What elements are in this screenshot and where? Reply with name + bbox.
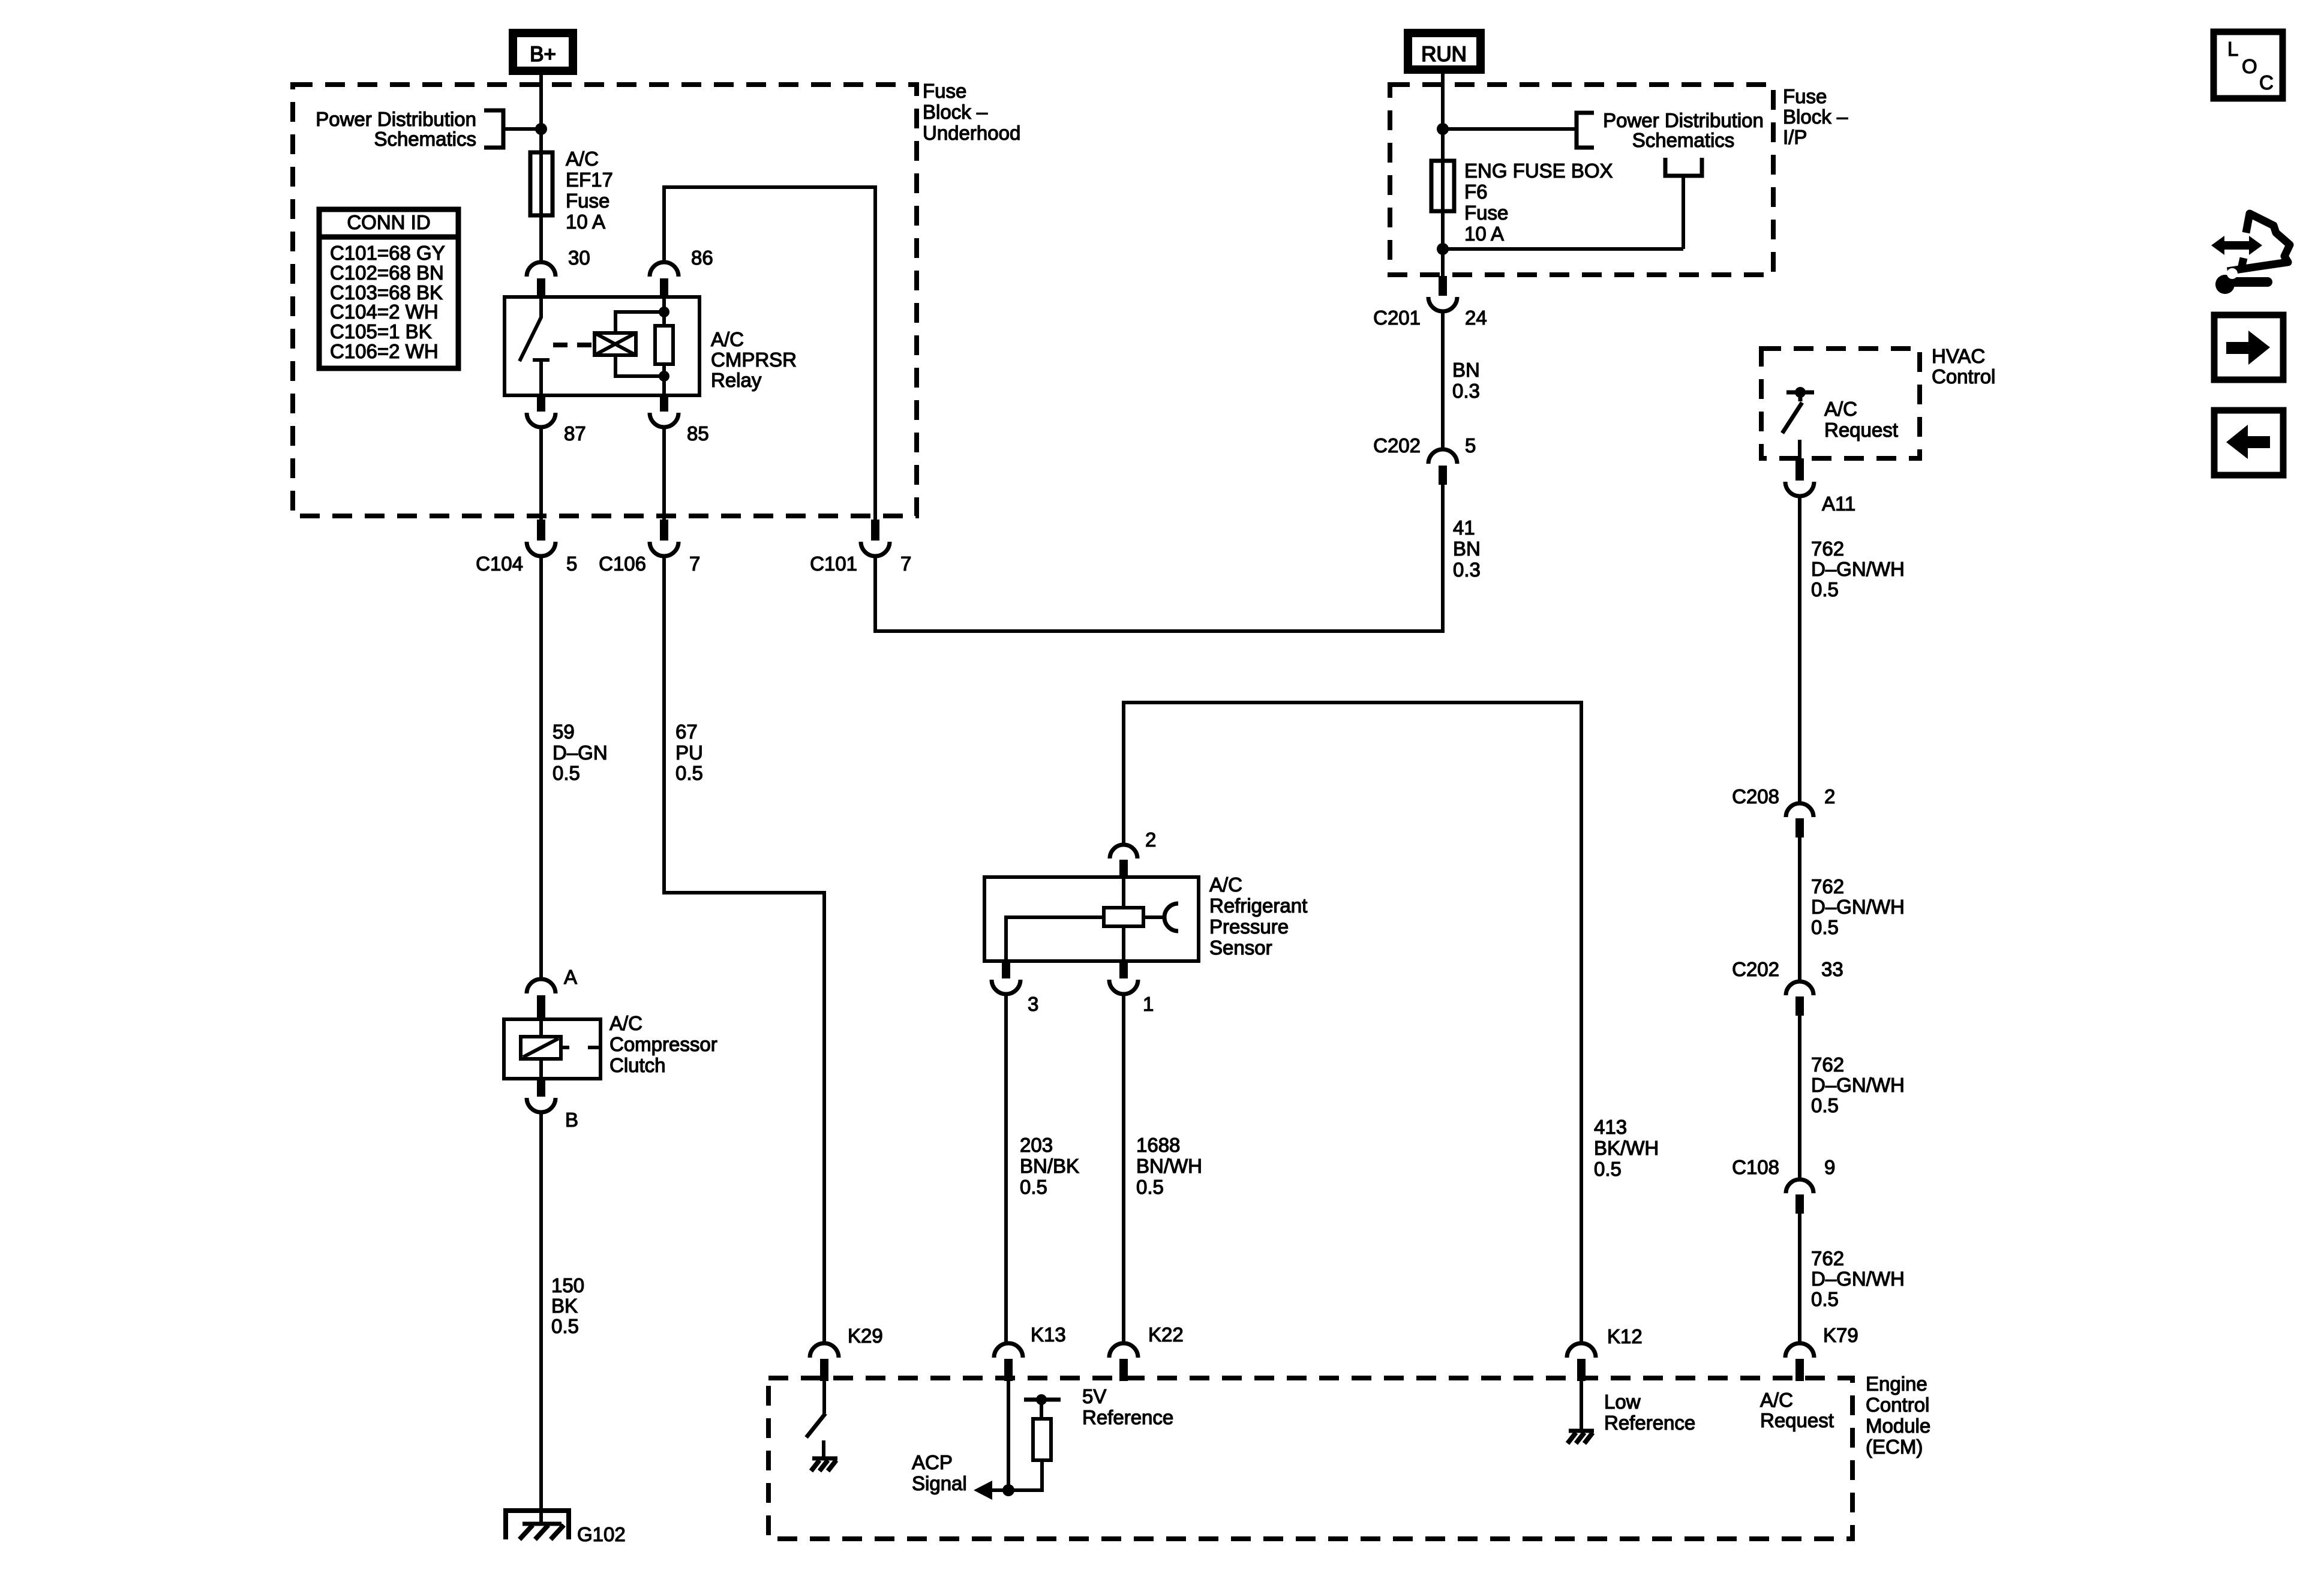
svg-text:A: A <box>564 966 577 988</box>
svg-text:203: 203 <box>1020 1134 1053 1156</box>
svg-text:Schematics: Schematics <box>1632 129 1735 151</box>
svg-text:BN: BN <box>1452 359 1480 381</box>
svg-text:7: 7 <box>689 553 700 575</box>
connector A11 <box>1785 458 1855 515</box>
svg-text:K12: K12 <box>1607 1325 1643 1347</box>
svg-text:5: 5 <box>1465 434 1476 457</box>
wire pin 3 to K13 <box>1004 994 1008 1344</box>
svg-text:Pressure: Pressure <box>1209 915 1289 938</box>
connector K29 <box>810 1325 883 1381</box>
connector B at compressor clutch <box>527 1079 578 1131</box>
svg-text:10 A: 10 A <box>566 211 605 233</box>
wire sensor pin 2 up and over to K12 <box>1124 703 1581 1344</box>
wire pin 1 to K22 <box>1122 994 1125 1344</box>
wire resistor to ACP junction <box>991 1460 1042 1490</box>
svg-text:Reference: Reference <box>1082 1406 1173 1428</box>
svg-text:C104=2 WH: C104=2 WH <box>330 301 439 323</box>
connector at relay pin 86 <box>650 262 678 298</box>
svg-text:3: 3 <box>1028 993 1038 1015</box>
svg-text:C108: C108 <box>1732 1156 1779 1178</box>
svg-text:0.5: 0.5 <box>1594 1158 1622 1180</box>
svg-text:Fuse: Fuse <box>566 190 609 212</box>
back arrow button <box>2214 410 2283 475</box>
svg-text:33: 33 <box>1821 958 1843 980</box>
forward arrow button <box>2214 315 2283 380</box>
svg-text:ACP: ACP <box>912 1451 953 1473</box>
svg-text:Fuse: Fuse <box>1464 202 1508 224</box>
label A/C Refrigerant Pressure Sensor <box>1209 873 1307 959</box>
svg-text:B: B <box>565 1109 578 1131</box>
label ACP Signal <box>912 1451 967 1494</box>
label A/C CMPRSR Relay <box>711 328 797 391</box>
svg-text:5V: 5V <box>1082 1385 1106 1407</box>
svg-text:D–GN/WH: D–GN/WH <box>1811 558 1905 580</box>
wire label 59 D-GN 0.5 <box>553 721 608 784</box>
wire label 203 BN/BK 0.5 <box>1020 1134 1079 1198</box>
svg-text:0.5: 0.5 <box>1811 916 1839 938</box>
svg-text:I/P: I/P <box>1783 126 1807 148</box>
wire C101 down to RUN feed junction <box>875 483 1443 631</box>
wire K13 to ACP signal junction <box>1007 1381 1010 1490</box>
svg-text:Schematics: Schematics <box>374 128 476 150</box>
svg-text:BN/BK: BN/BK <box>1020 1155 1079 1177</box>
connector pin 1 at pressure sensor <box>1109 961 1154 1015</box>
label HVAC Control <box>1932 345 1995 388</box>
svg-text:Compressor: Compressor <box>609 1033 717 1055</box>
svg-text:BN: BN <box>1453 538 1481 560</box>
svg-text:D–GN/WH: D–GN/WH <box>1811 1268 1905 1290</box>
connector pin 2 at pressure sensor <box>1110 828 1156 878</box>
svg-text:Module: Module <box>1866 1415 1930 1437</box>
connector C201 pin 24 <box>1373 276 1487 329</box>
wire label 41 BN 0.3 <box>1453 517 1481 581</box>
sensor element and internal wiring <box>1006 877 1178 961</box>
diagnostic wrench icon <box>2211 214 2290 294</box>
svg-text:CMPRSR: CMPRSR <box>711 349 797 371</box>
svg-text:C106=2 WH: C106=2 WH <box>330 340 439 362</box>
svg-text:K22: K22 <box>1148 1323 1184 1346</box>
wire fuse to relay pin 30 <box>539 215 543 263</box>
wire tap to power distribution bracket <box>484 110 541 148</box>
wire B to ground G102 <box>539 1111 543 1512</box>
svg-text:0.5: 0.5 <box>1136 1176 1164 1198</box>
node junction at I/P power distribution tap <box>1437 123 1449 135</box>
svg-text:0.5: 0.5 <box>1811 578 1839 601</box>
5V reference rail <box>1024 1394 1061 1419</box>
svg-text:Sensor: Sensor <box>1209 936 1272 959</box>
svg-text:1688: 1688 <box>1136 1134 1180 1156</box>
svg-text:2: 2 <box>1145 828 1156 851</box>
fuse block I/P dashed box <box>1390 85 1773 275</box>
connector K12 <box>1567 1325 1643 1381</box>
wire coil to resistor bottom loop <box>615 355 664 376</box>
ECM dashed box <box>768 1378 1852 1539</box>
svg-text:K79: K79 <box>1823 1324 1858 1346</box>
wire C202-33 to C108 <box>1798 1016 1801 1181</box>
goes-to bracket below schematics label <box>1665 158 1702 249</box>
connector C208 pin 2 <box>1732 785 1835 837</box>
connector C106 pin 7 <box>599 520 700 575</box>
label A/C EF17 Fuse 10 A <box>566 148 613 233</box>
svg-text:Clutch: Clutch <box>609 1054 666 1076</box>
switch to ground inside ECM at K29 <box>806 1381 825 1458</box>
svg-text:87: 87 <box>564 422 586 445</box>
label ENG FUSE BOX F6 Fuse 10 A <box>1464 160 1613 245</box>
ground G102 <box>503 1508 626 1545</box>
svg-text:Request: Request <box>1760 1409 1834 1431</box>
svg-text:C106: C106 <box>599 553 646 575</box>
wire label 762 D-GN/WH 0.5 (4) <box>1811 1247 1905 1310</box>
wire label 762 D-GN/WH 0.5 (3) <box>1811 1053 1905 1116</box>
connector K13 <box>994 1323 1066 1381</box>
A/C request switch inside HVAC control <box>1782 387 1814 460</box>
svg-text:O: O <box>2242 55 2257 77</box>
svg-text:762: 762 <box>1811 1053 1844 1076</box>
wire K12 to internal ground <box>1580 1381 1583 1431</box>
wire C208 to C202-33 <box>1798 837 1801 983</box>
svg-text:10 A: 10 A <box>1464 223 1504 245</box>
A/C refrigerant pressure sensor box <box>984 877 1199 961</box>
node bottom coil junction <box>659 371 669 382</box>
ground symbol at K29 <box>811 1458 837 1471</box>
wire label 762 D-GN/WH 0.5 (2) <box>1811 875 1905 938</box>
label A/C Request (ECM) <box>1760 1389 1834 1431</box>
wire C201 to C202 <box>1441 311 1445 451</box>
svg-text:Underhood: Underhood <box>923 122 1020 144</box>
wire label 413 BK/WH 0.5 <box>1594 1116 1659 1180</box>
svg-text:0.5: 0.5 <box>551 1315 579 1337</box>
connector C104 pin 5 <box>476 520 577 575</box>
svg-text:0.5: 0.5 <box>1020 1176 1047 1198</box>
relay switch contact <box>520 297 550 395</box>
svg-text:A/C: A/C <box>609 1012 642 1034</box>
svg-text:Block –: Block – <box>1783 106 1848 128</box>
svg-text:150: 150 <box>551 1274 584 1296</box>
svg-text:Power Distribution: Power Distribution <box>1603 109 1764 131</box>
wire tap to power distribution bracket (right) <box>1443 113 1594 148</box>
connector A at compressor clutch <box>527 966 577 1020</box>
svg-text:762: 762 <box>1811 875 1844 897</box>
svg-text:30: 30 <box>568 247 590 269</box>
node ACP signal junction <box>1002 1484 1014 1496</box>
svg-text:59: 59 <box>553 721 575 743</box>
svg-text:D–GN/WH: D–GN/WH <box>1811 1074 1905 1096</box>
svg-text:A/C: A/C <box>1209 873 1242 896</box>
svg-text:BK/WH: BK/WH <box>1594 1137 1659 1159</box>
svg-text:1: 1 <box>1143 993 1154 1015</box>
svg-text:5: 5 <box>566 553 577 575</box>
svg-text:Refrigerant: Refrigerant <box>1209 894 1307 917</box>
svg-text:D–GN: D–GN <box>553 742 608 764</box>
compressor clutch coil <box>521 1019 600 1079</box>
wire label 67 PU 0.5 <box>675 721 703 784</box>
wire label 150 BK 0.5 <box>551 1274 584 1337</box>
svg-text:0.5: 0.5 <box>553 762 580 784</box>
svg-text:7: 7 <box>900 553 911 575</box>
label 5V Reference <box>1082 1385 1173 1428</box>
wire coil to resistor top loop <box>615 312 664 333</box>
svg-text:K13: K13 <box>1031 1323 1066 1346</box>
svg-text:Request: Request <box>1824 419 1898 441</box>
label Power Distribution Schematics (right) <box>1603 109 1764 151</box>
svg-text:PU: PU <box>675 742 703 764</box>
svg-text:C104: C104 <box>476 553 523 575</box>
wire relay internal resistor branch <box>662 297 666 395</box>
svg-text:0.5: 0.5 <box>675 762 703 784</box>
svg-text:A/C: A/C <box>711 328 744 350</box>
label A/C Compressor Clutch <box>609 1012 717 1076</box>
svg-text:Control: Control <box>1932 365 1995 388</box>
resistor pull-up inside ECM <box>1033 1419 1051 1460</box>
svg-text:Engine: Engine <box>1866 1373 1927 1395</box>
svg-text:D–GN/WH: D–GN/WH <box>1811 896 1905 918</box>
svg-text:C105=1 BK: C105=1 BK <box>330 320 432 343</box>
wire fuse F6 output loop <box>1443 247 1683 251</box>
wire C104 to compressor clutch pin A <box>539 555 543 980</box>
wire label 1688 BN/WH 0.5 <box>1136 1134 1202 1198</box>
svg-text:RUN: RUN <box>1421 43 1467 66</box>
svg-text:A11: A11 <box>1822 493 1855 515</box>
fuse EF17 10A <box>530 152 553 215</box>
svg-text:Low: Low <box>1604 1391 1641 1413</box>
resistor inside relay <box>655 326 673 364</box>
connector at relay pin 85 <box>650 395 678 427</box>
label Fuse Block Underhood <box>923 80 1020 144</box>
svg-text:86: 86 <box>691 247 713 269</box>
svg-text:A/C: A/C <box>566 148 599 170</box>
wire from relay coil branch up and over to C101 <box>664 187 875 520</box>
connector C108 pin 9 <box>1732 1156 1835 1214</box>
wire C108 to K79 <box>1798 1214 1801 1344</box>
LOC legend box <box>2214 32 2283 98</box>
wire label BN 0.3 <box>1452 359 1480 402</box>
connector at relay pin 30 <box>527 262 556 298</box>
svg-text:0.3: 0.3 <box>1452 380 1480 402</box>
svg-text:413: 413 <box>1594 1116 1627 1138</box>
wire A11 to C208 <box>1798 495 1801 804</box>
svg-text:24: 24 <box>1465 307 1487 329</box>
svg-text:Fuse: Fuse <box>923 80 966 102</box>
svg-text:BK: BK <box>551 1295 578 1317</box>
svg-text:G102: G102 <box>577 1523 626 1545</box>
svg-text:C208: C208 <box>1732 785 1779 807</box>
svg-text:C202: C202 <box>1373 434 1421 457</box>
connector K22 <box>1109 1323 1184 1381</box>
svg-text:85: 85 <box>687 422 709 445</box>
fuse block underhood dashed box <box>293 85 917 516</box>
svg-text:2: 2 <box>1824 785 1835 807</box>
ACP signal arrow <box>974 1481 992 1500</box>
connector K79 <box>1785 1324 1858 1381</box>
svg-text:C101=68 GY: C101=68 GY <box>330 242 445 264</box>
svg-text:0.5: 0.5 <box>1811 1094 1839 1116</box>
svg-text:0.3: 0.3 <box>1453 559 1481 581</box>
svg-text:41: 41 <box>1453 517 1475 539</box>
svg-text:C201: C201 <box>1373 307 1421 329</box>
wire pin 85 to C106 <box>662 427 666 521</box>
svg-text:C: C <box>2259 71 2274 94</box>
ground symbol at K12 <box>1568 1431 1594 1443</box>
node top coil junction <box>659 307 669 317</box>
svg-text:ENG FUSE BOX: ENG FUSE BOX <box>1464 160 1613 182</box>
svg-text:C202: C202 <box>1732 958 1779 980</box>
svg-text:L: L <box>2227 38 2238 60</box>
connector at relay pin 87 <box>527 395 556 427</box>
svg-text:Reference: Reference <box>1604 1412 1695 1434</box>
label Power Distribution Schematics (left) <box>316 108 476 150</box>
node junction at power distribution tap <box>535 123 547 135</box>
svg-text:0.5: 0.5 <box>1811 1288 1839 1310</box>
svg-text:67: 67 <box>675 721 698 743</box>
label Low Reference <box>1604 1391 1695 1434</box>
svg-text:K29: K29 <box>848 1325 883 1347</box>
svg-text:EF17: EF17 <box>566 169 613 191</box>
label Fuse Block I/P <box>1783 85 1848 148</box>
fuse F6 10A <box>1431 161 1454 276</box>
compressor clutch box <box>504 1019 600 1079</box>
power symbol RUN <box>1408 33 1481 70</box>
svg-text:A/C: A/C <box>1760 1389 1793 1411</box>
relay coil box with X <box>594 333 636 355</box>
svg-text:A/C: A/C <box>1824 398 1857 420</box>
svg-text:762: 762 <box>1811 1247 1844 1269</box>
svg-text:Power Distribution: Power Distribution <box>316 108 476 130</box>
svg-text:Signal: Signal <box>912 1472 967 1494</box>
label A/C Request (HVAC) <box>1824 398 1898 441</box>
svg-text:Relay: Relay <box>711 369 762 391</box>
svg-text:762: 762 <box>1811 538 1844 560</box>
svg-text:B+: B+ <box>530 43 556 66</box>
svg-text:C101: C101 <box>810 553 857 575</box>
wire B+ to fuse EF17 <box>539 71 543 155</box>
svg-text:9: 9 <box>1824 1156 1835 1178</box>
node junction below fuse F6 <box>1437 243 1449 255</box>
svg-text:BN/WH: BN/WH <box>1136 1155 1202 1177</box>
connector C101 pin 7 <box>810 520 911 575</box>
connector C202 pin 5 <box>1373 434 1476 485</box>
power symbol B+ <box>513 33 573 71</box>
svg-text:F6: F6 <box>1464 181 1488 203</box>
relay U1 A/C CMPRSR Relay box <box>505 297 699 395</box>
svg-text:CONN ID: CONN ID <box>347 211 430 233</box>
connector C202 pin 33 <box>1732 958 1843 1016</box>
svg-text:Block –: Block – <box>923 101 988 123</box>
connector pin 3 at pressure sensor <box>992 961 1038 1015</box>
relay actuator dashed link <box>553 343 593 347</box>
svg-text:HVAC: HVAC <box>1932 345 1985 367</box>
wire pin 87 to C104 <box>539 427 543 521</box>
svg-text:(ECM): (ECM) <box>1866 1436 1923 1458</box>
label Engine Control Module (ECM) <box>1866 1373 1930 1458</box>
svg-text:C102=68 BN: C102=68 BN <box>330 262 444 284</box>
svg-text:Control: Control <box>1866 1394 1929 1416</box>
CONN ID table <box>317 209 461 368</box>
wire C106 down and over to K29 <box>664 555 824 1344</box>
svg-text:Fuse: Fuse <box>1783 85 1827 107</box>
wire RUN to fuse F6 <box>1441 67 1445 162</box>
HVAC control dashed box <box>1761 349 1920 458</box>
wire label 762 D-GN/WH 0.5 (1) <box>1811 538 1905 601</box>
